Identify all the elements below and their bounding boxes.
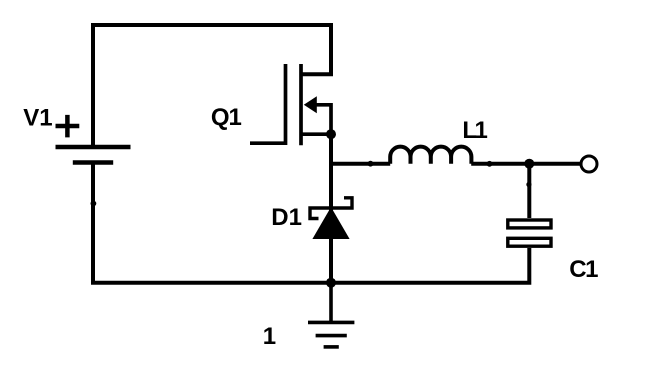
pin nub on battery bottom wire bbox=[91, 201, 97, 207]
wire inductor to output terminal bbox=[471, 162, 581, 166]
svg-text:1: 1 bbox=[263, 323, 276, 350]
node: Q1 source junction dot bbox=[326, 129, 336, 139]
svg-text:C1: C1 bbox=[569, 256, 598, 283]
ground bbox=[308, 283, 354, 347]
svg-text:D1: D1 bbox=[271, 204, 302, 231]
pin nub on C1 top wire bbox=[526, 182, 531, 187]
pin nub on switch-node wire bbox=[368, 161, 374, 167]
D1 schottky cathode bar bbox=[310, 198, 352, 219]
pin nub right of inductor bbox=[487, 161, 493, 167]
diode D1 (Schottky, pointing up) bbox=[315, 210, 347, 238]
capacitor C1 top plate bbox=[508, 220, 551, 246]
inductor L1 bbox=[390, 147, 471, 164]
svg-text:Q1: Q1 bbox=[211, 104, 242, 131]
node: ground junction dot bbox=[326, 278, 336, 288]
node: output junction dot bbox=[524, 159, 534, 169]
plus sign of V1 bbox=[56, 115, 80, 137]
battery V1 plates bbox=[56, 147, 131, 163]
svg-text:V1: V1 bbox=[23, 105, 52, 132]
wire output node down to C1 bbox=[527, 164, 531, 218]
wire switch node to inductor bbox=[331, 162, 390, 166]
svg-text:L1: L1 bbox=[462, 117, 487, 144]
output terminal circle bbox=[581, 156, 597, 172]
transistor Q1 (NMOS) bbox=[250, 64, 331, 145]
wire switch node vertical bbox=[329, 134, 333, 283]
Q1 body arrow head bbox=[304, 96, 317, 113]
wire battery bottom to bottom rail bbox=[93, 163, 529, 283]
wire top rail from battery top to MOSFET drain bbox=[93, 25, 331, 147]
capacitor C1 bottom plate bbox=[508, 238, 551, 246]
